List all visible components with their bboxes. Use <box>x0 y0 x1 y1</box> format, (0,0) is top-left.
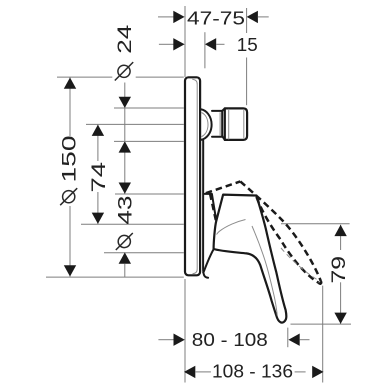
wire: extension line right of 15 <box>204 32 206 68</box>
dimension 79 vertical line lower <box>340 282 342 324</box>
plate front face thin line <box>196 85 198 269</box>
svg-text:150: 150 <box>59 136 81 183</box>
svg-text:74: 74 <box>88 162 110 193</box>
wire: wall extension line above plate <box>184 6 186 77</box>
dimension 79 arrow top <box>334 225 346 236</box>
handle collar step <box>205 194 217 221</box>
wire: extension line from dashed lever tip <box>322 286 324 383</box>
stem thin line <box>219 112 221 135</box>
dimension 47-75 arrow right <box>247 11 258 23</box>
boss bump on plate <box>201 109 212 140</box>
cap thin line left <box>228 109 230 139</box>
handle shading curve long <box>252 226 277 316</box>
dimension 108-136 arrow left <box>184 366 195 378</box>
cap thin line right <box>243 110 245 138</box>
dimension Ø150 arrow top <box>64 78 76 89</box>
dimension Ø24 arrow bottom <box>119 141 131 152</box>
dimension 15 arrow left <box>173 38 184 50</box>
wire: extension line solid lever tip <box>287 328 289 348</box>
plate front face corner arc bottom <box>193 269 198 274</box>
wire: extension line y108 <box>114 107 184 109</box>
dimension 74 arrow bottom <box>92 213 104 224</box>
cartridge stem <box>212 111 222 137</box>
handle skirt rear edge <box>203 249 213 272</box>
wire: extension line y252.8 <box>104 252 184 254</box>
dimension Ø24 vertical line <box>124 83 126 194</box>
dimension 74 vertical line upper <box>97 125 99 161</box>
dimension 15 line left <box>159 43 174 45</box>
wire: extension line y77 left part <box>57 76 112 78</box>
cap chamfer top <box>222 108 225 111</box>
dimension Ø150 vertical line upper <box>69 78 71 137</box>
wire: extension line y124.4 axis <box>86 123 184 125</box>
dimension 80-108 line left <box>158 339 173 341</box>
svg-text:79: 79 <box>328 256 350 284</box>
wire: extension line y277.1 <box>46 276 184 278</box>
cap chamfer bottom <box>222 136 225 140</box>
symbol diameter of 43 <box>116 233 133 250</box>
svg-text:80 - 108: 80 - 108 <box>192 329 268 350</box>
dimension Ø150 vertical line lower <box>69 206 71 277</box>
dimension 15 line right <box>216 43 224 45</box>
dimension 108-136 arrow right <box>312 366 323 378</box>
dimension 47-75 line right <box>258 16 269 18</box>
dashed raised hub top edge <box>206 181 241 193</box>
dimension 47-75 arrow left <box>173 11 184 23</box>
dimension Ø43 vertical line lower <box>124 264 126 278</box>
wire: extension line y224.2 <box>81 223 184 225</box>
dashed raised lever lower edge <box>257 197 319 283</box>
handle shading curve top <box>217 220 246 235</box>
knob cap <box>225 108 247 139</box>
dimension 108-136 line left <box>195 371 211 373</box>
symbol diameter of 24 <box>115 62 133 80</box>
wire: extension line right of 47-75 lower <box>246 58 248 106</box>
svg-text:108 - 136: 108 - 136 <box>212 360 293 381</box>
svg-text:47-75: 47-75 <box>187 8 245 29</box>
dashed raised collar edge <box>210 194 216 221</box>
dimension 108-136 line right <box>295 371 306 373</box>
dimension Ø43 arrow top <box>119 183 131 194</box>
dimension Ø43 arrow bottom <box>119 252 131 263</box>
dashed raised lever inner thin line <box>281 248 317 280</box>
wire: extension line y223.7 right <box>281 223 350 225</box>
dimension 79 vertical line upper <box>340 225 342 250</box>
svg-text:24: 24 <box>114 25 136 54</box>
dimension 80-108 arrow left <box>174 334 185 346</box>
dimension 74 vertical line lower <box>97 192 99 224</box>
dimension 74 arrow top <box>92 125 104 136</box>
wire: extension line y324.1 right <box>291 323 352 325</box>
wire: extension line y141.4 <box>114 140 184 142</box>
plate escutcheon side view <box>185 77 200 275</box>
dimension 80-108 arrow right <box>288 334 299 346</box>
boss inner thin arc <box>202 113 209 137</box>
dimension 79 arrow bottom <box>334 313 346 324</box>
wire: extension line y77 right part <box>136 76 184 78</box>
dimension Ø150 arrow bottom <box>64 265 76 276</box>
svg-text:43: 43 <box>115 196 137 225</box>
dimension 80-108 line right <box>300 339 310 341</box>
wire: extension line y194 <box>115 193 184 195</box>
dimension Ø24 arrow top <box>119 97 131 108</box>
svg-text:15: 15 <box>237 34 258 55</box>
dimension 47-75 line left <box>158 16 174 18</box>
dimension 15 arrow right <box>205 38 216 50</box>
dashed raised lever tip <box>319 281 322 284</box>
symbol diameter of 150 <box>60 188 77 205</box>
plate front face corner arc top <box>192 79 197 84</box>
boss lower edge below knob <box>203 141 208 278</box>
handle hub and lever outline <box>214 195 287 323</box>
dashed raised lever upper edge <box>240 181 320 281</box>
wire: wall extension line below plate <box>184 279 186 383</box>
wire: extension line right of 47-75 upper <box>246 8 248 33</box>
